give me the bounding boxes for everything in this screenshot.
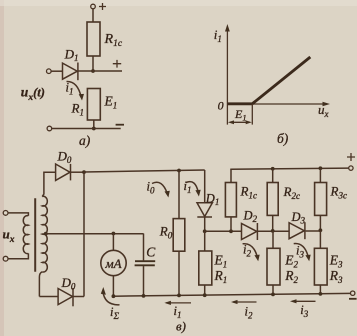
battery E1 R1 (a) <box>71 89 118 121</box>
top rail left segment <box>84 170 205 172</box>
battery E1 R1 (v) <box>199 231 227 295</box>
resistor R1c (a) <box>87 22 123 56</box>
diode D0 bottom <box>39 275 84 306</box>
svg-text:а): а) <box>79 133 91 148</box>
top rail right segment <box>230 168 348 169</box>
resistor R3c <box>315 168 347 230</box>
current arrow i1 (a) <box>66 81 85 101</box>
bottom current arrow i1 <box>164 301 191 320</box>
svg-text:0: 0 <box>218 99 224 113</box>
capacitor C <box>135 234 157 296</box>
terminal ux top (v) <box>3 211 28 216</box>
junction dot R0 bottom <box>177 294 181 298</box>
current arrow i1 (v) <box>184 179 201 197</box>
resistor R1c (v) <box>225 169 257 231</box>
junction dot bottom (a) <box>92 127 96 131</box>
junction dot E2R2 bottom <box>271 293 275 297</box>
y axis i1 <box>214 24 230 125</box>
dimension line E1 <box>228 104 252 125</box>
junction dot C bottom <box>142 294 146 298</box>
diode D1 (a) <box>63 47 79 81</box>
junction dot meter bottom <box>112 294 116 298</box>
characteristic curve <box>227 57 310 104</box>
x axis ux <box>227 102 330 119</box>
center tap wire <box>44 232 144 236</box>
middle rail segments <box>205 230 321 232</box>
wire R1c to node <box>92 56 94 71</box>
svg-text:мА: мА <box>104 256 121 271</box>
wire secondary top to D0 <box>39 172 55 296</box>
transformer core <box>34 198 36 272</box>
battery E2 R2 <box>267 231 298 295</box>
cathode rail vertical wire <box>83 172 85 296</box>
node dot (a) <box>91 69 95 73</box>
diode D0 top <box>56 149 84 181</box>
resistor R0 <box>159 219 185 252</box>
output wire with + (a) <box>78 60 122 71</box>
bottom current arrow i3 <box>290 299 316 319</box>
milliammeter mA <box>101 234 126 297</box>
junction dot E3R3 bottom <box>319 292 323 296</box>
terminal minus (v) <box>349 291 357 299</box>
secondary winding <box>42 196 47 272</box>
junction dot R3c top <box>319 166 323 170</box>
junction dot R3c bottom <box>319 228 323 232</box>
diode D2 <box>242 209 258 241</box>
junction dot R1c bottom <box>229 229 233 233</box>
wire R0 bottom <box>178 251 180 295</box>
current arrow i3 (v) <box>294 243 311 261</box>
current arrow i0 <box>147 180 170 198</box>
primary winding <box>23 216 28 254</box>
junction dot R2c bottom <box>271 229 275 233</box>
bottom current arrow i2 <box>231 300 257 321</box>
junction dot R0 top <box>177 169 181 173</box>
junction dot meter top <box>112 232 116 236</box>
battery E3 R3 <box>314 230 343 294</box>
terminal ux bottom (v) <box>3 253 28 261</box>
wire R0 drop <box>178 171 180 219</box>
terminal + (v) <box>347 153 355 170</box>
resistor R2c <box>267 169 300 231</box>
terminal left input (a) <box>47 69 63 74</box>
diode D1 (v) <box>197 170 219 231</box>
bottom rail <box>113 293 350 296</box>
junction dot cathodes <box>82 170 86 174</box>
wire top terminal to R1c <box>92 9 94 22</box>
junction dot R2c top <box>271 167 275 171</box>
bottom wire with terminal and minus (a) <box>47 125 124 131</box>
diode D3 <box>289 210 305 239</box>
junction dot D1 bottom <box>203 229 207 233</box>
current arrow iS <box>101 287 120 322</box>
svg-text:C: C <box>146 245 156 260</box>
junction dot E1R1 bottom <box>203 293 207 297</box>
wire E1 to bottom rail (a) <box>93 120 95 129</box>
svg-text:в): в) <box>176 319 186 334</box>
current arrow i2 (v) <box>243 243 260 262</box>
svg-text:б): б) <box>277 131 289 146</box>
terminal + (top, circuit a) <box>91 3 106 10</box>
